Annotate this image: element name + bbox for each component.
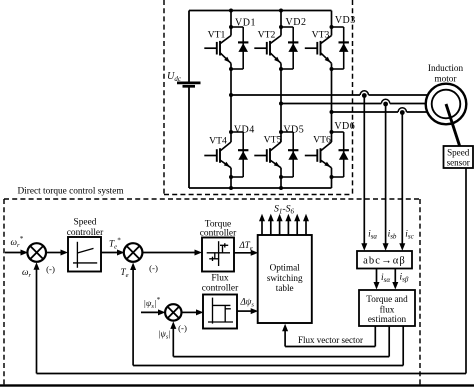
svg-text:switching: switching (267, 273, 303, 283)
svg-text:VT5: VT5 (264, 135, 282, 146)
svg-text:abc→αβ: abc→αβ (363, 256, 406, 267)
svg-text:VD1: VD1 (235, 18, 256, 29)
svg-text:(-): (-) (46, 264, 55, 274)
svg-text:Optimal: Optimal (270, 263, 301, 273)
svg-text:Speed: Speed (447, 148, 470, 158)
svg-text:Torque and: Torque and (366, 294, 408, 304)
svg-text:flux: flux (380, 305, 395, 315)
svg-text:Direct torque control system: Direct torque control system (17, 187, 124, 197)
svg-text:VD3: VD3 (335, 15, 356, 26)
svg-text:VD4: VD4 (234, 125, 255, 136)
svg-text:sensor: sensor (447, 158, 470, 168)
svg-text:controller: controller (200, 229, 237, 239)
svg-text:Flux: Flux (211, 274, 229, 284)
svg-text:VD5: VD5 (283, 125, 304, 136)
svg-text:VT2: VT2 (258, 30, 276, 41)
svg-text:estimation: estimation (368, 314, 407, 324)
svg-text:VT3: VT3 (312, 30, 330, 41)
svg-text:VT4: VT4 (209, 136, 227, 147)
svg-text:VD6: VD6 (334, 121, 355, 132)
svg-text:Flux vector sector: Flux vector sector (298, 335, 363, 345)
svg-text:VT6: VT6 (313, 135, 331, 146)
svg-text:motor: motor (435, 74, 457, 84)
svg-text:controller: controller (67, 228, 104, 238)
svg-text:(-): (-) (149, 263, 158, 273)
svg-text:controller: controller (202, 284, 239, 294)
svg-text:Speed: Speed (74, 218, 97, 228)
svg-text:table: table (276, 283, 294, 293)
svg-text:Induction: Induction (428, 63, 464, 73)
svg-text:VD2: VD2 (286, 17, 307, 28)
svg-text:(-): (-) (178, 323, 187, 333)
svg-text:VT1: VT1 (208, 30, 226, 41)
